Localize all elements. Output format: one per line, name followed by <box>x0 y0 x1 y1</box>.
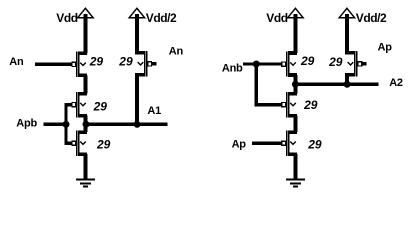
junction dot node A2 right <box>344 81 351 88</box>
svg-text:29: 29 <box>93 99 108 113</box>
svg-text:An: An <box>169 46 184 58</box>
svg-text:Ap: Ap <box>232 139 247 151</box>
junction dot node A1 left <box>83 121 90 128</box>
wire M5 source to node A2 <box>294 75 298 84</box>
wire Anb to M5 gate <box>256 62 282 65</box>
transistor M6 <box>345 51 361 76</box>
svg-text:Vdd: Vdd <box>266 11 287 25</box>
wire M6 gate stub <box>361 62 366 65</box>
wire Vdd left stem <box>84 14 88 54</box>
power symbol Vdd right triangle <box>288 8 303 17</box>
svg-text:29: 29 <box>118 55 133 69</box>
transistor M5 <box>282 51 297 76</box>
svg-text:Vdd: Vdd <box>56 11 77 25</box>
svg-text:A1: A1 <box>147 105 161 117</box>
wire Vdd/2 left stem <box>135 14 139 53</box>
wire M1 source to M3 drain <box>84 75 88 93</box>
svg-text:29: 29 <box>89 54 104 68</box>
svg-text:29: 29 <box>96 138 111 152</box>
transistor M2 <box>135 51 151 76</box>
wire ground left <box>84 154 88 179</box>
transistor M1 <box>72 52 87 77</box>
wire Vdd/2 right stem <box>345 14 349 53</box>
transistor M7 <box>282 92 297 117</box>
wire ground right <box>294 154 298 179</box>
svg-text:Vdd/2: Vdd/2 <box>356 11 387 25</box>
wire Apb input <box>44 122 67 126</box>
wire An to M1 gate <box>35 63 72 66</box>
svg-text:29: 29 <box>303 98 318 112</box>
wire Ap to M8 gate <box>252 141 282 144</box>
junction dot node A2 left <box>292 81 299 88</box>
power symbol Vdd/2 right triangle <box>339 8 354 17</box>
svg-text:29: 29 <box>328 55 343 69</box>
wire M6 source down to A2 <box>345 75 349 85</box>
junction dot node A1 right <box>134 121 141 128</box>
wire Apb gate bus <box>66 105 72 144</box>
ground symbol ground right <box>286 180 305 187</box>
wire node A1 <box>86 122 168 126</box>
svg-text:Anb: Anb <box>222 63 243 75</box>
svg-text:29: 29 <box>307 137 322 151</box>
wire node A1 to M4 drain <box>84 124 88 132</box>
transistor M3 <box>72 92 87 117</box>
wire M2 source down to A1 <box>135 75 139 125</box>
wire node A2 to M7 drain <box>294 84 298 93</box>
wire Vdd right stem <box>294 14 298 53</box>
wire Anb gate bus <box>256 64 282 105</box>
ground symbol ground left <box>76 180 95 187</box>
wire M3 source to node A1 <box>84 116 88 125</box>
wire Anb input <box>243 62 256 65</box>
transistor M4 <box>72 131 87 156</box>
wire node A2 <box>295 82 378 86</box>
svg-text:Ap: Ap <box>378 41 393 53</box>
svg-text:A2: A2 <box>389 77 403 89</box>
svg-text:Apb: Apb <box>16 117 37 129</box>
transistor M8 <box>282 131 297 156</box>
power symbol Vdd left triangle <box>78 8 93 17</box>
svg-text:Vdd/2: Vdd/2 <box>146 11 177 25</box>
svg-text:29: 29 <box>300 54 315 68</box>
wire M7 source to M8 drain <box>294 116 298 133</box>
power symbol Vdd/2 left triangle <box>129 8 144 17</box>
junction dot Anb <box>253 61 260 68</box>
junction dot Apb <box>63 121 70 128</box>
svg-text:An: An <box>9 56 24 68</box>
wire M2 gate stub <box>152 62 157 65</box>
